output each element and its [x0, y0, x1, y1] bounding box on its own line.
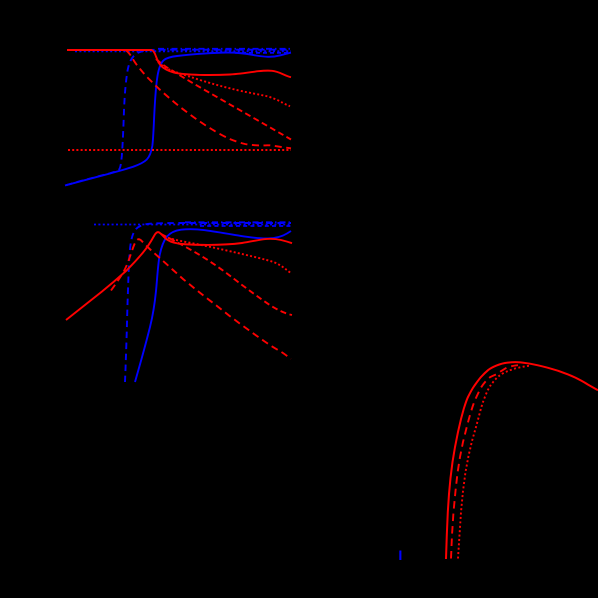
panel2 blue solid sigmoid [135, 229, 291, 382]
panel2 red medium-dash diagonal [161, 234, 292, 315]
panel3 red solid curve [446, 362, 598, 559]
panel1 red dotted horizontal line [68, 149, 291, 151]
panel2 red early long-dash curve [111, 239, 291, 359]
panel1 blue dash-dot flat line [158, 48, 291, 50]
panel2 blue dashed sigmoid [125, 223, 291, 382]
panel2 blue dotted flat line [94, 224, 291, 226]
panel3 blue clipped bar [399, 551, 401, 561]
panel1 red early long-dash curve [126, 50, 291, 148]
panel2 red dotted curve [164, 237, 291, 273]
panel2 blue dash-dot flat line [185, 221, 291, 223]
panel1 blue dashed sigmoid [66, 50, 291, 186]
panel1 blue solid sigmoid [65, 53, 291, 186]
panel3 red dotted curve [458, 366, 529, 559]
panel1 red dotted curve [158, 62, 290, 106]
panel2 blue short-dash line right segment [200, 225, 291, 227]
panel3 red dashed curve [451, 365, 518, 558]
panel1 blue short-dash line right segment [235, 52, 291, 54]
panel2 red solid curve [66, 232, 292, 320]
panel1 red solid curve [67, 50, 291, 77]
panel1 blue dotted flat line [75, 50, 291, 52]
panel1 red medium-dash diagonal [156, 59, 291, 140]
